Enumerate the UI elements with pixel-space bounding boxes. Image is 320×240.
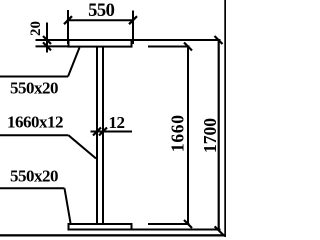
dimension 1700 tick lower: [215, 226, 224, 235]
dimension 12 line: [91, 131, 133, 133]
dimension 1700 line: [218, 40, 220, 230]
dimension 550 line: [67, 19, 134, 21]
dimension 20 extension line lower: [36, 45, 69, 47]
dimension 550 extension line right: [132, 11, 134, 45]
dimension 1700 extension line upper: [130, 39, 221, 41]
svg-text:550: 550: [88, 1, 115, 21]
svg-text:1660x12: 1660x12: [7, 113, 63, 132]
svg-text:550x20: 550x20: [10, 79, 58, 98]
dimension 1660 extension line lower: [148, 223, 190, 225]
svg-text:1660: 1660: [168, 114, 188, 152]
dimension 12 tick left: [93, 128, 101, 136]
dimension 550 extension line left: [67, 10, 69, 44]
dimension 1660 tick upper: [184, 43, 192, 51]
svg-text:550x20: 550x20: [10, 167, 58, 186]
dimension 1700 extension line lower: [130, 229, 221, 231]
dimension 20 line: [46, 23, 48, 53]
svg-text:1700: 1700: [200, 118, 220, 153]
top flange label 550x20 leader diagonal: [68, 48, 80, 77]
web label 1660x12 leader diagonal: [69, 135, 97, 158]
dimension 1660 tick lower: [184, 220, 192, 228]
dimension 20 extension line upper: [36, 39, 69, 41]
dimension 20 tick upper: [43, 36, 51, 44]
web: [96, 47, 98, 225]
svg-text:12: 12: [109, 113, 125, 132]
dimension 20 tick lower: [43, 42, 51, 50]
svg-text:20: 20: [28, 21, 44, 36]
top flange label 550x20 leader line: [0, 76, 68, 78]
bottom flange label 550x20 leader diagonal: [65, 188, 71, 223]
top flange: [69, 40, 132, 47]
dimension 1660 extension line upper: [148, 46, 190, 48]
dimension 550 tick right: [129, 16, 137, 24]
bottom flange label 550x20 leader line: [0, 187, 65, 189]
web label 1660x12 leader line: [0, 134, 69, 136]
dimension 1660 line: [187, 47, 189, 224]
dimension 550 tick left: [64, 16, 72, 24]
right border: [224, 0, 226, 237]
bottom border: [0, 234, 226, 236]
dimension 12 tick right: [99, 128, 107, 136]
bottom flange: [69, 224, 132, 230]
dimension 1700 tick upper: [215, 36, 223, 44]
